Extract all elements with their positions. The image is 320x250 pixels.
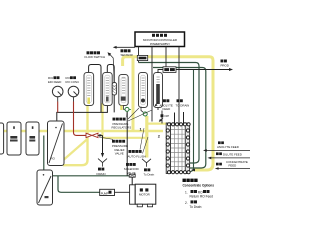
svg-text:ANOLYTE FEED: ANOLYTE FEED [217,145,239,149]
pressure gauge G1 EDI feed [52,86,63,97]
wire: anolyte drain stub above stack [183,112,185,124]
svg-text:EDI FEED: EDI FEED [48,80,61,84]
svg-text:FLOW SWITCH: FLOW SWITCH [85,55,106,59]
svg-text:O/P: O/P [164,114,169,118]
stack bolts right column [186,129,189,167]
relief valve bowtie [86,133,98,137]
svg-text:MOTOR: MOTOR [139,192,150,196]
tank C carbon filter [26,122,39,155]
label solenoid valve [124,163,139,175]
wire: FM2 top U-loop through flow switch down [107,65,114,113]
wire: yellow mid drop from product line [132,58,135,132]
pump body [130,185,136,204]
label flow switch [85,51,106,59]
wire: dark green pump suction from prefilter E [50,172,129,176]
wire: dark green feed into prefilter E [43,136,45,171]
stack bolts left column [166,129,169,167]
svg-text:Return RO Feed: Return RO Feed [190,195,214,199]
label anolyte feed at FM5 [155,99,173,111]
pump label box [100,189,115,195]
wire: yellow FM2 bottom drop yv2 [101,103,103,138]
tank E prefilter [37,170,53,205]
svg-text:TO DRAIN: TO DRAIN [176,103,190,107]
flow switch pointer arrow [110,54,115,82]
label to drain top right [176,99,190,107]
svg-text:REGULATORS: REGULATORS [112,126,132,130]
svg-text:POWER SUPPLY: POWER SUPPLY [150,42,170,46]
wire: yellow concentrate cross line yh2 [103,137,147,139]
connector box DC1 [137,55,147,60]
svg-text:AUTO FLUSH: AUTO FLUSH [128,154,146,158]
pressure gauge G2 RO conc [68,86,79,97]
wire: dark green branch down to pump inlet [58,176,100,193]
wire: yellow stack dilute inlet branch yh0 [147,122,167,124]
svg-text:VALVE: VALVE [115,152,124,156]
arrow: concentrate feed into stack [191,169,195,172]
stack bolts top row [167,123,190,126]
product arrow PROD [229,68,233,71]
svg-text:To Drain: To Drain [190,205,202,209]
wire: relief discharge arrow [98,134,100,136]
label concentrate feed right [215,160,250,170]
svg-text:To Drain: To Drain [144,173,155,177]
flow meter FM5 anolyte [154,73,163,108]
label pressure regulators with pointers [112,108,153,130]
wire: dark green dilute feed line [153,68,206,169]
wire: FM1 top U-loop down to manifold [89,65,101,113]
wire: dark green anolyte feed line [139,63,200,164]
flow switch inline element [112,83,116,96]
pressure regulator valve on FM3 [120,106,122,111]
svg-text:DRAIN: DRAIN [97,172,106,176]
wire: black feed manifold across tank D top to FM2 [57,103,108,122]
label drain F2 [144,168,147,171]
wire: yellow tank interconnect / RO-return line yh1 [2,130,163,132]
svg-text:FEED: FEED [229,163,237,167]
flow meter FM1 [84,73,94,106]
svg-text:RO: RO [51,157,56,161]
wire: anolyte drop into stack [161,111,163,124]
controller wires down [139,47,180,124]
pressure regulator valve on FM4 [141,107,143,113]
label auto flush with pointers [128,128,149,158]
tank A softener partial [0,123,4,154]
wire: relief drain drop with arrow [102,136,104,154]
wire: FM3 bottom riser down to suction line [126,108,128,176]
svg-text:PUMP: PUMP [101,191,109,195]
sensor wire with arrow [116,46,136,48]
flow meter FM4 [139,73,148,108]
label anolyte feed right [203,141,250,151]
label drain F1 [98,168,101,171]
wire: FM5 outlet stub [157,108,159,111]
connector box DC2 on product line [158,70,230,74]
motor M1 [135,184,156,207]
svg-text:SENSOR: SENSOR [121,53,133,57]
svg-text:FEED: FEED [163,107,171,111]
wire: red gauge line EDI feed [57,102,59,113]
wire: yellow EDI-feed riser from RO bottom to FM1 yv3 [63,99,88,165]
EDI stack module [166,123,189,174]
svg-text:PROD: PROD [221,64,229,68]
wire: yellow product main line FM3 top to right side down [123,57,213,170]
svg-text:Concentrate Options: Concentrate Options [183,183,215,187]
wire: product riser from stack to PROD line [189,70,194,172]
tank B softener [7,122,21,155]
solenoid valve symbol [129,174,135,177]
label pressure relief valve [99,137,128,156]
wire: red gauge line RO conc to relief valve [74,102,87,136]
wire: yellow concentrate drain drop yv1 [145,116,148,158]
wire: solenoid valve drop to pump [131,177,133,185]
svg-text:2.: 2. [185,201,188,205]
flow meter FM2 [103,73,113,106]
svg-text:DILUTE FEED: DILUTE FEED [223,152,242,156]
label dilute in/out with arrow [159,114,169,122]
wire: yellow diagonal RO outlet bypass [59,139,88,165]
wire: stack top inlet stub [174,113,176,124]
stack bolts bottom row [167,171,190,174]
svg-text:1.: 1. [185,190,188,194]
drain funnel F1 [98,159,107,167]
monitor/controller power supply box U1 [135,32,185,47]
label sensor [121,49,124,52]
tank D RO module [48,121,65,166]
notes: concentrate options text block [183,179,215,209]
drain funnel F2 [142,159,151,167]
label dilute feed right [208,152,251,159]
flow meter FM3 [119,75,128,106]
svg-text:RO CONC: RO CONC [66,80,80,84]
